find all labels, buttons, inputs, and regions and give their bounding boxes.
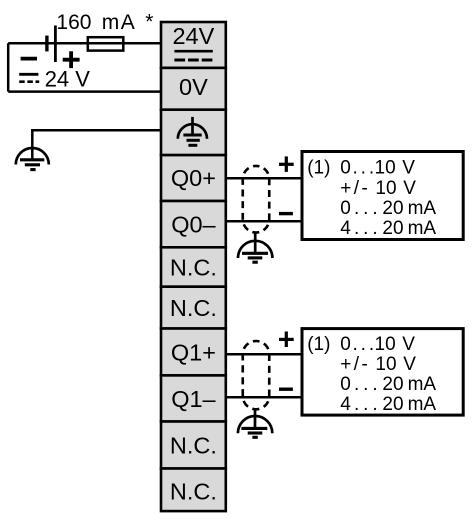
svg-text:+/-10V: +/-10V bbox=[340, 178, 416, 199]
wire left rail bbox=[7, 43, 10, 91]
label plus Q0 bbox=[279, 156, 294, 172]
svg-text:N.C.: N.C. bbox=[170, 479, 217, 505]
terminal Q1+ bbox=[161, 329, 226, 376]
DC symbol bbox=[19, 74, 39, 81]
terminal Q0- bbox=[161, 201, 226, 247]
terminal 24V bbox=[161, 22, 226, 68]
terminal N.C. 3 bbox=[161, 422, 226, 469]
label DC symbol under 24V bbox=[174, 51, 212, 60]
svg-text:4...20mA: 4...20mA bbox=[340, 218, 436, 239]
label plus Q1 bbox=[279, 332, 294, 348]
terminal N.C. 1 bbox=[161, 247, 226, 286]
terminal N.C. 2 bbox=[161, 287, 226, 329]
wire Q0+ output bbox=[226, 177, 302, 180]
wire Q1+ output bbox=[226, 353, 302, 356]
svg-text:24V: 24V bbox=[172, 23, 214, 49]
svg-text:24 V: 24 V bbox=[45, 67, 91, 92]
ground shield S1 bbox=[238, 233, 272, 263]
terminal N.C. 4 bbox=[161, 469, 226, 512]
label minus Q0 bbox=[279, 212, 293, 215]
terminal 0V bbox=[161, 68, 226, 110]
battery B1 24V bbox=[47, 26, 56, 63]
svg-text:0V: 0V bbox=[179, 74, 208, 100]
terminal Q1- bbox=[161, 375, 226, 421]
label minus Q1 bbox=[279, 388, 293, 391]
earth symbol in terminal bbox=[178, 117, 207, 145]
ground shield S2 bbox=[238, 409, 272, 437]
svg-text:N.C.: N.C. bbox=[170, 295, 217, 321]
svg-text:0...20mA: 0...20mA bbox=[340, 198, 436, 219]
wire Q1- output bbox=[226, 396, 302, 399]
label battery plus bbox=[63, 51, 80, 68]
shielded cable S1 bbox=[243, 166, 270, 233]
svg-text:Q0+: Q0+ bbox=[171, 165, 216, 191]
svg-text:4...20mA: 4...20mA bbox=[340, 394, 436, 415]
annotation box 1 bbox=[302, 152, 463, 240]
wire earth to terminal bbox=[31, 130, 161, 160]
shielded cable S2 bbox=[243, 341, 270, 409]
svg-text:+/-10V: +/-10V bbox=[340, 354, 416, 375]
wire top supply from battery to 24V terminal bbox=[8, 42, 160, 45]
svg-text:N.C.: N.C. bbox=[170, 432, 217, 458]
wire bottom return to 0V terminal bbox=[8, 90, 160, 93]
svg-text:Q1+: Q1+ bbox=[171, 339, 216, 365]
fuse F1 bbox=[88, 37, 124, 50]
svg-text:Q1–: Q1– bbox=[171, 386, 216, 412]
terminal earth bbox=[161, 110, 226, 155]
label battery minus bbox=[21, 57, 37, 61]
annotation box 2 bbox=[302, 329, 463, 416]
ground protective earth (left) bbox=[16, 148, 49, 170]
terminal Q0+ bbox=[161, 155, 226, 201]
svg-text:N.C.: N.C. bbox=[170, 254, 217, 280]
svg-text:Q0–: Q0– bbox=[171, 211, 216, 237]
svg-text:0...20mA: 0...20mA bbox=[340, 374, 436, 395]
wire Q0- output bbox=[226, 220, 302, 223]
